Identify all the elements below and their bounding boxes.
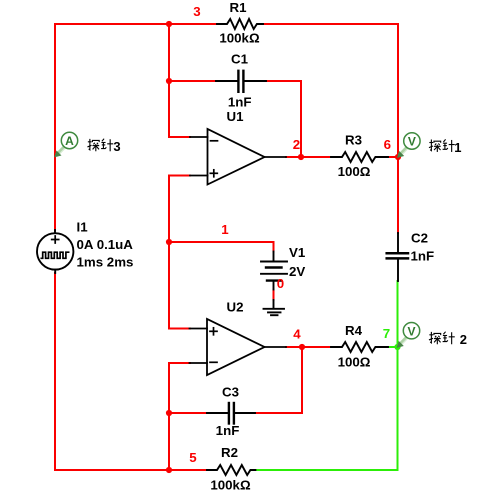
battery V1 (261, 252, 287, 290)
resistor R1 (217, 19, 263, 29)
svg-text:C2: C2 (411, 231, 428, 246)
svg-text:2V: 2V (289, 264, 305, 279)
resistor R3 (331, 152, 388, 162)
wire left vertical lower (54, 273, 56, 470)
current source I1 (37, 230, 73, 273)
svg-text:3: 3 (113, 139, 120, 154)
svg-text:3: 3 (193, 4, 200, 19)
wire left vertical upper (54, 24, 56, 230)
svg-text:1nF: 1nF (216, 423, 240, 438)
svg-text:A: A (65, 134, 74, 148)
svg-text:1: 1 (221, 222, 229, 237)
wire top net3 right (262, 23, 398, 25)
svg-text:R2: R2 (221, 445, 238, 460)
svg-text:U1: U1 (227, 109, 245, 124)
svg-text:7: 7 (383, 326, 390, 341)
label tanzhen1 (429, 139, 462, 155)
svg-text:V: V (407, 324, 415, 338)
wire C1 left (169, 80, 216, 82)
svg-text:R1: R1 (230, 0, 248, 15)
svg-text:1: 1 (454, 140, 461, 155)
svg-text:U2: U2 (227, 300, 244, 315)
op-amp U2 (190, 319, 287, 375)
label tanzhen3 (87, 139, 120, 154)
svg-text:R3: R3 (345, 132, 362, 147)
svg-text:C1: C1 (231, 52, 249, 67)
svg-text:0A 0.1uA: 0A 0.1uA (77, 237, 134, 252)
svg-text:2: 2 (460, 332, 467, 347)
probe A tanzhen3 (55, 132, 78, 157)
wire green net7 vertical (397, 281, 399, 470)
ground (264, 300, 285, 315)
junction C3 left (166, 410, 172, 416)
junction node7 green (394, 344, 400, 350)
probe V tanzhen2 (397, 323, 420, 348)
capacitor C2 (387, 233, 408, 281)
svg-text:V1: V1 (289, 245, 306, 260)
svg-text:100Ω: 100Ω (338, 354, 371, 369)
wire C1 right down to node2 (266, 81, 301, 157)
svg-text:V: V (408, 135, 416, 149)
svg-text:4: 4 (293, 327, 301, 342)
svg-text:2: 2 (293, 137, 300, 152)
wire top net3 left (55, 23, 217, 25)
svg-text:1nF: 1nF (411, 249, 435, 264)
resistor R4 (331, 342, 388, 352)
label tanzhen2 (429, 332, 467, 347)
junction node2 (298, 154, 304, 160)
svg-text:5: 5 (189, 450, 197, 465)
svg-text:6: 6 (384, 137, 391, 152)
resistor R2 (207, 465, 255, 475)
junction C1 left (166, 78, 172, 84)
wire green R4 right to net7 (388, 346, 398, 348)
wire bottom net5 (55, 469, 207, 471)
junction net1 (166, 239, 172, 245)
svg-text:100kΩ: 100kΩ (210, 478, 251, 493)
wire U2 minus down to C3 and net5 (169, 363, 190, 470)
wire vertical x169 net3 to U1 minus (169, 24, 190, 137)
wire battery mid red segment (273, 290, 275, 301)
wire C3 right up to node4 (255, 347, 302, 413)
wire net1 horizontal to V1 (169, 242, 274, 252)
svg-text:100kΩ: 100kΩ (219, 31, 260, 46)
junction node6 (395, 154, 401, 160)
probe V tanzhen1 (397, 133, 420, 158)
capacitor C1 (216, 71, 266, 92)
svg-text:1ms 2ms: 1ms 2ms (77, 255, 134, 270)
wire green bottom from R2 (255, 469, 398, 471)
junction net3 x169 (166, 21, 172, 27)
op-amp U1 (190, 129, 286, 185)
wire U1 output to R3 (286, 156, 331, 158)
wire R3 right to net6 (388, 156, 398, 158)
wire right vertical net6 (397, 24, 399, 233)
svg-text:R4: R4 (345, 323, 363, 338)
junction net5 (166, 467, 172, 473)
svg-text:0: 0 (277, 276, 284, 291)
capacitor C3 (207, 403, 255, 424)
svg-text:100Ω: 100Ω (338, 164, 371, 179)
wire C3 left (169, 412, 207, 414)
wire U2 output to R4 (286, 346, 331, 348)
wire U1 plus to net1 vertical (169, 176, 190, 329)
svg-text:I1: I1 (77, 220, 89, 235)
junction node4 (299, 344, 305, 350)
svg-text:C3: C3 (222, 385, 239, 400)
svg-text:1nF: 1nF (228, 94, 252, 109)
